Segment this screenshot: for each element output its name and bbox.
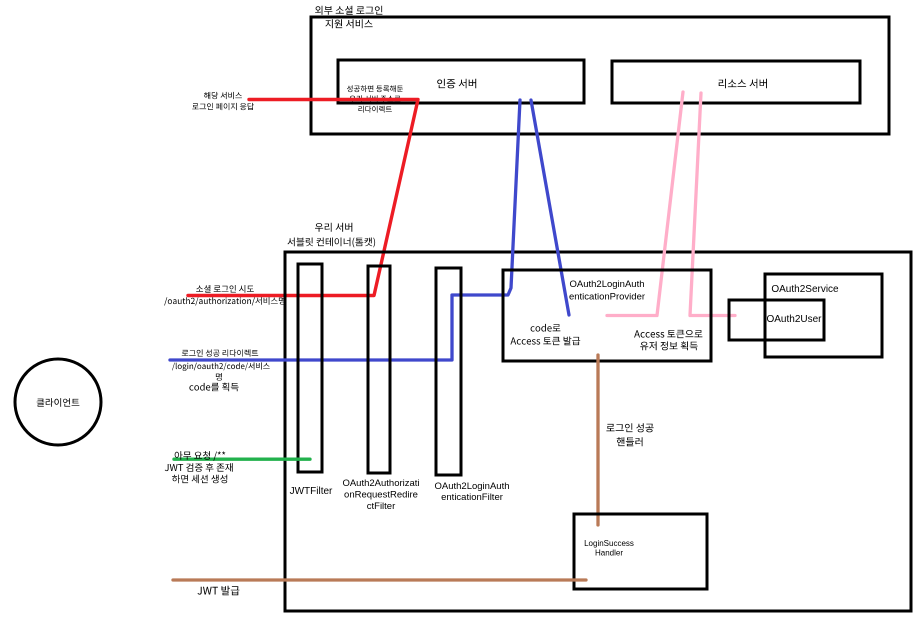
label: 소셜 로그인 시도 /oauth2/authorization/서비스명 (164, 285, 285, 306)
wire: pink user info fetch (right) (690, 93, 735, 316)
svg-text:JWTFilter: JWTFilter (290, 486, 333, 497)
box: auth server 인증 서버 (338, 60, 584, 103)
label: 우리 서버 서블릿 컨테이너(톰캣) (288, 223, 376, 248)
label: 로그인 성공 리다이렉트 /login/oauth2/code/서비스명 code를 획득 (172, 349, 270, 391)
box: JWTFilter (298, 264, 322, 472)
box: OAuth2AuthorizationRequestRedirectFilter (368, 266, 390, 473)
svg-text:enticationProvider: enticationProvider (569, 292, 645, 303)
svg-text:OAuth2User: OAuth2User (766, 314, 822, 325)
label: 외부 소셜 로그인 / 지원 서비스 (315, 6, 382, 29)
label: JWTFilter (290, 486, 333, 497)
box: OAuth2Service (765, 274, 882, 357)
box: OAuth2LoginAuthenticationFilter (436, 268, 461, 475)
wire: blue login success redirect (170, 100, 520, 360)
svg-text:OAuth2Authorizati: OAuth2Authorizati (342, 478, 419, 489)
label: JWT 발급 (198, 586, 240, 595)
label: LoginSuccessHandler (584, 539, 634, 558)
label: 로그인 성공 핸들러 (606, 423, 653, 446)
svg-text:OAuth2Service: OAuth2Service (771, 284, 839, 295)
svg-text:LoginSuccess: LoginSuccess (584, 539, 634, 548)
label: 인증 서버 (437, 79, 476, 89)
box: OAuth2User (729, 300, 824, 340)
label: code로 Access 토큰 발급 (510, 324, 580, 345)
label: 해당 서비스 로그인 페이지 응답 (192, 92, 254, 110)
box: our server main 우리 서버 (285, 252, 911, 611)
label: 성공하면 등록해둔 우리 서버 주소로 리다이렉트 (347, 85, 403, 112)
svg-text:enticationFilter: enticationFilter (441, 492, 503, 503)
box: LoginSuccessHandler (574, 514, 707, 589)
label: OAuth2LoginAuthenticationProvider (569, 279, 645, 303)
wire: red login page response (188, 100, 418, 296)
label: 클라이언트 (37, 398, 80, 407)
svg-text:OAuth2LoginAuth: OAuth2LoginAuth (569, 279, 644, 290)
svg-text:OAuth2LoginAuth: OAuth2LoginAuth (434, 481, 509, 492)
label: OAuth2User (766, 314, 822, 325)
wire: brown JWT issue (173, 578, 586, 581)
label: Access 토큰으로 유저 정보 획득 (634, 330, 702, 350)
wire: brown to login success handler (596, 355, 599, 525)
box: OAuth2LoginAuthenticationProvider (503, 270, 711, 361)
label: OAuth2Service (771, 284, 839, 295)
label: OAuth2AuthorizationRequestRedirectFilter (342, 478, 419, 512)
box: external social login service (outer top) (311, 17, 889, 134)
wire: green any request (174, 458, 310, 461)
label: 리소스 서버 (719, 79, 767, 89)
svg-text:ctFilter: ctFilter (367, 501, 396, 512)
label: 아무 요청 /** JWT 검증 후 존재 하면 세션 생성 (165, 451, 233, 483)
label: OAuth2LoginAuthenticationFilter (434, 481, 509, 503)
svg-text:onRequestRedire: onRequestRedire (344, 490, 418, 501)
wire: pink access token request (left) (607, 92, 683, 316)
svg-text:Handler: Handler (595, 549, 623, 558)
wire: blue code request diagonal (531, 100, 569, 315)
box: resource server 리소스 서버 (612, 61, 860, 103)
node: client circle 클라이언트 (15, 359, 101, 445)
